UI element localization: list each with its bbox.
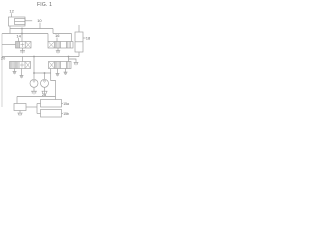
valve V1 sections xyxy=(20,42,26,49)
junction dot F xyxy=(68,56,70,58)
valve V3 drain wire 1 xyxy=(14,69,16,72)
junction dot A xyxy=(21,28,23,30)
rail A y=33.5 left xyxy=(2,33,48,35)
bracket stub top xyxy=(37,103,41,105)
riser to pumps xyxy=(33,57,35,80)
valve V4 side tank xyxy=(74,62,79,65)
valve V2 drain wire xyxy=(57,48,59,51)
valve V4 feed xyxy=(68,57,70,62)
engine/pump unit box A xyxy=(9,17,26,26)
valve V4 drain wire 1 xyxy=(57,69,59,74)
valve V4 body xyxy=(49,62,72,69)
svg-text:20: 20 xyxy=(1,56,5,60)
accumulator body xyxy=(75,32,83,52)
bracket stub bottom xyxy=(37,113,41,115)
bracket wire xyxy=(36,104,38,114)
valve V4 X xyxy=(49,62,54,68)
junction dot B xyxy=(21,33,23,35)
valve V2 hatches xyxy=(56,42,60,49)
valve V1 body xyxy=(16,42,32,49)
accumulator drop xyxy=(78,52,80,57)
svg-text:18: 18 xyxy=(86,36,90,41)
valve V4 output wire xyxy=(51,69,56,100)
valve V1 left port wire xyxy=(2,44,16,46)
pump P2 drain xyxy=(44,88,46,92)
valve V2 tank xyxy=(56,51,60,54)
left vertical wire xyxy=(1,34,3,108)
valve V3 body xyxy=(10,62,31,69)
valve V2 left feed xyxy=(47,34,49,42)
valve V4 tank 2 xyxy=(64,72,68,75)
pump P1 tank xyxy=(31,91,37,94)
drop wire from unit A xyxy=(9,26,11,34)
inner divider of unit A xyxy=(15,21,26,23)
valve V2 end hatches xyxy=(68,42,71,49)
box B2 xyxy=(41,100,62,108)
svg-text:16: 16 xyxy=(55,33,60,38)
valve V3 drain wire 2 xyxy=(21,69,23,76)
valve V2 body xyxy=(48,42,73,49)
inner box of unit A xyxy=(15,19,26,25)
box B1 feed xyxy=(16,97,18,104)
valve V4 tank 1 xyxy=(56,73,60,76)
pump P1 drain xyxy=(33,88,35,92)
box B1 right connector xyxy=(26,106,37,108)
junction dot E xyxy=(44,72,46,74)
accumulator piston xyxy=(75,41,83,43)
jog wire x=53 xyxy=(52,29,54,34)
rail B y=33.5 right xyxy=(53,33,72,35)
junction dot C xyxy=(33,56,35,58)
pump P2 tank xyxy=(42,91,48,94)
accumulator stub xyxy=(78,25,80,32)
valve V3 sections xyxy=(13,62,25,69)
leader for 10 xyxy=(39,23,41,29)
leader for 12 xyxy=(11,13,13,17)
valve V1 drain wire xyxy=(22,48,24,51)
line y=96.5 xyxy=(17,96,56,98)
valve V4 hatches xyxy=(56,62,60,69)
svg-text:28: 28 xyxy=(42,93,46,97)
valve V3 end hatches xyxy=(11,62,12,69)
box B3 xyxy=(41,110,62,118)
valve V3 cross xyxy=(20,62,24,67)
junction dot D xyxy=(33,72,35,74)
svg-text:FIG. 1: FIG. 1 xyxy=(37,2,52,8)
valve V1 cross xyxy=(21,43,25,48)
valve V1 X xyxy=(26,42,31,47)
valve V2 X xyxy=(49,42,54,47)
valve V4 sections xyxy=(55,62,67,69)
pump P1 inner mark xyxy=(33,81,36,83)
main line y=28.5 xyxy=(10,28,53,30)
svg-text:15b: 15b xyxy=(63,112,69,116)
valve V4 drain wire 2 xyxy=(65,69,67,73)
label 15a leader xyxy=(62,102,64,104)
valve V3 tank 2 xyxy=(20,75,24,78)
valve V3 hatches xyxy=(14,62,18,69)
box B1 tank xyxy=(17,113,22,116)
pump P1 xyxy=(30,79,38,87)
valve V2 right feed xyxy=(71,34,73,42)
valve V2 sections xyxy=(55,42,67,49)
valve V1 tank xyxy=(20,51,25,54)
box B1 xyxy=(14,104,26,111)
pump link y=73 xyxy=(34,72,51,74)
valve V3 tank 1 xyxy=(13,71,17,74)
pump P2 riser xyxy=(44,73,46,79)
rail C y=56.5 xyxy=(2,56,79,58)
leader for 16 xyxy=(56,38,58,42)
output line from unit A xyxy=(25,20,32,22)
valve V3 feed xyxy=(22,57,24,62)
pump P2 inner mark xyxy=(43,81,46,83)
pump P2 xyxy=(41,79,49,87)
valve V4 end hatches xyxy=(68,62,69,69)
leader for 14 xyxy=(18,38,20,42)
svg-text:10: 10 xyxy=(37,18,42,23)
label 15b leader xyxy=(62,112,64,114)
box B1 ground wire xyxy=(19,111,21,113)
valve V4 branch to tank xyxy=(69,59,77,62)
valve V1 feed wire xyxy=(21,29,23,42)
svg-text:14: 14 xyxy=(16,33,21,38)
svg-text:15a: 15a xyxy=(63,102,69,106)
valve V1 hatches xyxy=(17,42,19,49)
label 18 leader xyxy=(83,37,86,39)
valve V3 X xyxy=(26,62,30,68)
svg-text:12: 12 xyxy=(9,8,14,13)
